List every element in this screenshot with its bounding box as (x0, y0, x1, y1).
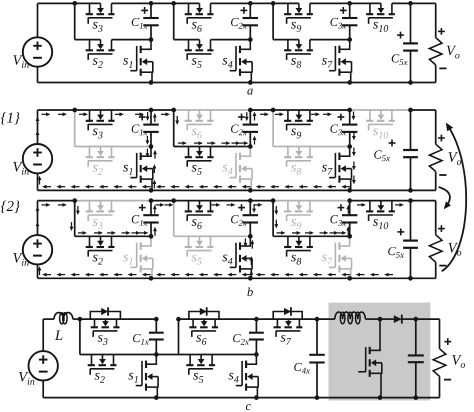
resistor load (429, 144, 442, 171)
wire: cell 2 branch ({1}) (173, 110, 175, 147)
switch S3 (80, 319, 156, 345)
junction dots ({2}) (72, 198, 413, 280)
phase transition arrow {2}->{1} (big arc) (442, 125, 466, 272)
capacitor C5x (374, 110, 418, 190)
capacitor C1x (132, 201, 159, 237)
switch S6 (151, 3, 250, 31)
switch S4 (229, 355, 259, 398)
wire: top rail joints ({1}) (38, 109, 75, 111)
capacitor C4x (294, 319, 325, 398)
switch S6 (174, 110, 251, 138)
switch S6 (174, 201, 251, 229)
current-flow arrows ({1}) (36, 112, 356, 189)
switch S1 (128, 355, 158, 398)
switch S5 (174, 40, 251, 68)
capacitor Cout (408, 319, 424, 398)
phase label {2} (1, 201, 20, 213)
switch S9 (273, 201, 350, 229)
capacitor C1x (132, 110, 159, 147)
wire: cell 3 branch ({1}) (272, 110, 274, 147)
sub-label c (246, 404, 251, 410)
current-flow arrows ({2}) (36, 203, 404, 279)
switch S1 (123, 236, 153, 278)
output Vo branch c (433, 319, 465, 398)
switch S6 (179, 319, 257, 345)
wire: top rail joints (411, 2, 436, 4)
capacitor C1x (132, 3, 159, 39)
switch S1 (123, 40, 153, 83)
switch S2 (80, 355, 156, 383)
buck diode (394, 315, 402, 323)
switch S1 (123, 147, 153, 191)
switch S4 (222, 147, 252, 191)
voltage source Vin (a) (13, 3, 52, 82)
resistor load (429, 38, 442, 65)
switch S2 (75, 236, 151, 264)
wire: cell branch (c) (79, 319, 81, 354)
switch S8 (273, 147, 350, 175)
switch S5 (174, 236, 251, 264)
capacitor C3x (330, 3, 357, 39)
wire: bottom rail ({1}) (38, 189, 436, 191)
voltage source Vin ({2}) (13, 201, 52, 279)
wire: cell branch (c) (178, 319, 180, 354)
switch S10 (350, 3, 411, 31)
wire: cell 1 branch ({1}) (74, 110, 76, 147)
anti-parallel diode of S3 (90, 312, 120, 320)
wire: mid link C1x to cell2 (c) (156, 354, 178, 356)
wire: bottom rail (a) (38, 82, 436, 84)
phase label {1} (1, 112, 20, 124)
wire: top rail joints ({2}) (38, 200, 75, 202)
wire: cell 1 branch ({2}) (74, 201, 76, 237)
capacitor C2x (231, 110, 258, 147)
anti-parallel diode of S7 (273, 312, 302, 320)
switch buck switch (358, 319, 382, 398)
switch S8 (273, 236, 350, 264)
inductor L (43, 318, 54, 320)
switch S8 (273, 40, 350, 68)
sub-label a (247, 89, 252, 95)
capacitor C3x (330, 201, 357, 237)
phase transition arrow {1}->{2} (small arc) (439, 187, 450, 208)
switch S10 (350, 110, 411, 138)
capacitor C5x (388, 201, 418, 279)
voltage source Vin (c) (19, 319, 58, 398)
junction dots (c) (78, 317, 419, 400)
wire: cell 3 branch ({2}) (272, 201, 274, 237)
output Vo branch {2} (429, 201, 461, 279)
shaded buck-converter block (329, 303, 431, 401)
capacitor C2x (231, 3, 258, 39)
switch S7 (256, 319, 317, 345)
wire: cell 2 branch ({2}) (173, 201, 175, 237)
sub-label b (247, 287, 252, 296)
buck inductor (317, 318, 335, 320)
capacitor C1x (c) (133, 319, 164, 354)
capacitor C2x (c) (233, 319, 264, 354)
switch S3 (75, 201, 151, 229)
wire: cell 1 branch (a) (74, 3, 76, 39)
wire: bottom rail ({2}) (38, 277, 436, 279)
capacitor C2x (231, 201, 258, 237)
output Vo branch {1} (429, 110, 461, 190)
resistor load (429, 235, 442, 262)
switch S9 (273, 110, 350, 138)
switch S10 (350, 201, 411, 229)
wire: cell 3 branch (a) (272, 3, 274, 39)
switch S7 (322, 40, 352, 83)
switch S5 (174, 147, 251, 175)
switch S7 (322, 147, 352, 191)
capacitor C5x (392, 3, 418, 82)
switch S5 (179, 355, 257, 383)
switch S3 (75, 110, 151, 138)
output Vo branch a (429, 3, 459, 82)
switch S4 (222, 236, 252, 278)
resistor load (433, 349, 446, 377)
capacitor C3x (330, 110, 357, 147)
switch S2 (75, 147, 151, 175)
switch S3 (38, 3, 152, 31)
wire: cell 2 branch (a) (173, 3, 175, 39)
switch S9 (250, 3, 349, 31)
junction dots ({1}) (72, 108, 413, 193)
switch S2 (75, 40, 151, 68)
voltage source Vin ({1}) (13, 110, 52, 190)
anti-parallel diode of S6 (189, 312, 219, 320)
wire: bottom rail (c) (43, 397, 439, 399)
junction dots (a) (72, 1, 413, 85)
switch S7 (322, 236, 352, 278)
switch S4 (222, 40, 252, 83)
